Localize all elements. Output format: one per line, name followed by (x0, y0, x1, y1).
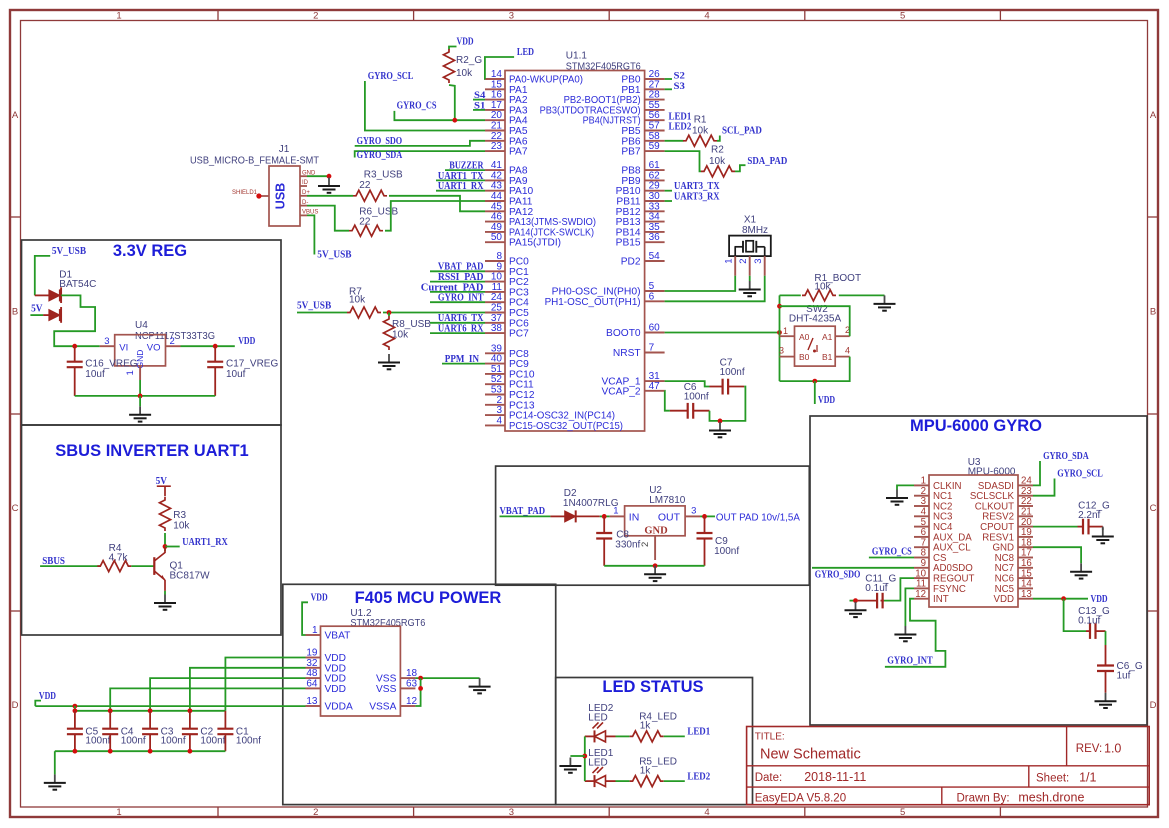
junction UART1_RX (163, 544, 168, 549)
svg-text:LED2: LED2 (687, 771, 710, 783)
wire R5_LED to LED2 label (664, 780, 685, 782)
ground (C11_G) (845, 602, 867, 617)
U3 pin 15 NC6 (995, 568, 1033, 584)
svg-text:SCL_PAD: SCL_PAD (722, 125, 762, 137)
wire VBUS to 5V_USB (307, 215, 314, 254)
diode D1 bottom half (43, 307, 61, 323)
ground (R1_BOOT) (874, 295, 896, 310)
svg-text:64: 64 (306, 678, 318, 689)
wire D+ to R3_USB (307, 195, 353, 197)
junction VSS63 (418, 686, 423, 691)
U1.1 pin 31 VCAP_1 (602, 371, 665, 388)
svg-text:UART1_RX: UART1_RX (182, 536, 228, 548)
svg-text:5V_USB: 5V_USB (317, 249, 352, 261)
U3 pin 7 AUX_CL (914, 537, 971, 553)
junction VCAP ground (718, 419, 723, 424)
svg-text:R2_G: R2_G (456, 55, 482, 66)
svg-text:10k: 10k (173, 521, 190, 532)
svg-text:5V_USB: 5V_USB (52, 245, 87, 257)
wire J1 GND to ground (307, 175, 329, 177)
svg-text:10k: 10k (456, 68, 473, 79)
U1.2 pin 64 VDD (306, 678, 347, 695)
svg-text:EasyEDA V5.8.20: EasyEDA V5.8.20 (755, 793, 846, 805)
net label 5V (30, 303, 43, 316)
SW2 pin 2 A1 (835, 325, 850, 336)
U1.1 pin 26 PB0 (621, 69, 664, 86)
U1.1 pin 17 PA3 (485, 100, 528, 117)
svg-text:50: 50 (491, 232, 503, 243)
junction U3 VDD (1061, 596, 1066, 601)
wire VDD pin48 to rail (150, 678, 305, 711)
capacitor C5 100nf (67, 711, 111, 751)
U1.1 pin 9 PC1 (485, 261, 529, 278)
svg-text:8MHz: 8MHz (742, 225, 768, 236)
diode D1 BAT54C dual schottky (0, 0, 1, 1)
U3 pin 8 CS (914, 548, 947, 564)
capacitor C2 100nf (182, 711, 226, 751)
svg-text:1: 1 (116, 807, 121, 818)
wire R3 to Q1 collector (164, 533, 166, 551)
svg-text:VDDA: VDDA (325, 702, 354, 713)
U1.1 pin 62 PB9 (621, 170, 664, 187)
svg-text:5: 5 (900, 11, 905, 22)
svg-text:R3_USB: R3_USB (364, 170, 403, 181)
svg-text:60: 60 (649, 323, 661, 334)
X1 pin 1 (724, 256, 736, 276)
net label S4 on PA2 (473, 90, 486, 100)
net label GYRO_SDO (U3) (812, 568, 914, 581)
net label VBAT_PAD (U2 in) (500, 505, 551, 517)
svg-text:38: 38 (491, 323, 503, 334)
wire PB7 to R2 (665, 151, 701, 171)
svg-text:GYRO_SCL: GYRO_SCL (1057, 469, 1103, 480)
svg-text:10k: 10k (392, 330, 409, 341)
junction C11_G gnd (850, 598, 858, 603)
wire LED lower to R5_LED (616, 780, 630, 782)
net label GYRO_SDA + wire to PA7 (355, 149, 485, 161)
svg-text:1.0: 1.0 (1104, 742, 1121, 756)
capacitor C4 100nf (102, 711, 146, 751)
U1.1 pin 49 PA14(JTCK-SWCLK) (485, 222, 594, 239)
wire LED common to ground (570, 755, 584, 757)
svg-text:4: 4 (496, 415, 502, 426)
capacitor C3 100nf (142, 711, 186, 751)
svg-text:0.1uf: 0.1uf (865, 583, 887, 594)
wire C7 to ground rail (720, 387, 745, 421)
resistor R4_LED 1k (630, 712, 677, 742)
svg-text:GYRO_INT: GYRO_INT (887, 656, 933, 667)
svg-text:LM7810: LM7810 (649, 495, 686, 506)
svg-text:USB_MICRO-B_FEMALE-SMT: USB_MICRO-B_FEMALE-SMT (190, 156, 319, 167)
resistor R6_USB (349, 206, 399, 236)
svg-text:GYRO_CS: GYRO_CS (397, 100, 437, 112)
ground (U2) (644, 566, 666, 581)
svg-text:GND: GND (644, 526, 668, 537)
svg-text:A0: A0 (799, 332, 810, 342)
U1.1 pin 41 PA8 (485, 160, 528, 177)
wire 5V_USB to R7 (297, 312, 347, 314)
svg-text:3: 3 (104, 336, 109, 347)
capacitor C13_G 0.1uf (1078, 606, 1110, 639)
wire X1 pin1 to PH0 (665, 276, 736, 291)
wire R2_G to PA4 net (449, 85, 455, 120)
wire R7 to PC5 (383, 312, 485, 314)
U1.1 pin 52 PC11 (485, 374, 534, 391)
ground (VSS) (469, 678, 491, 693)
U1.2 pin 1 VBAT (306, 625, 351, 642)
wire X1 pin3 to PH1 (665, 276, 765, 302)
U3 pin 6 AUX_DA (914, 527, 972, 543)
wire VSS63/VSSA join (415, 678, 420, 706)
ground (C12_G) (1092, 527, 1114, 544)
title block (747, 727, 1150, 805)
wire U2 ground rail (604, 565, 704, 567)
power flag VDD (R2_G top) (449, 36, 474, 50)
svg-text:TITLE:: TITLE: (755, 732, 785, 743)
net label GYRO_SCL (U3) (1033, 469, 1103, 496)
transistor Q1 BC817W (154, 547, 210, 591)
net label S2 on PB0 (665, 72, 686, 82)
wire SW2 left rail (779, 295, 781, 381)
net label UART3_TX on PB10 (665, 181, 720, 192)
U1.1 pin 25 PC5 (485, 303, 529, 320)
resistor R5_LED 1k (630, 757, 677, 787)
svg-text:GYRO_SCL: GYRO_SCL (368, 70, 414, 82)
net label GYRO_SDO + wire to PA6 (355, 135, 485, 147)
svg-text:VDD: VDD (818, 394, 835, 406)
J1 pin D+ (300, 190, 310, 196)
wire 3.3V REG ground rail (75, 395, 216, 397)
net label UART1_RX on PA10 (436, 180, 485, 192)
U1.1 pin 54 PD2 (621, 251, 665, 268)
wire INT to GYRO_INT (885, 599, 946, 667)
ground (C6_G) (1095, 693, 1117, 708)
U2 pin 1 IN (610, 506, 625, 517)
junction BOOT0 (777, 330, 782, 335)
U1.1 pin 7 NRST (613, 343, 665, 360)
U3 pin 1 CLKIN (914, 476, 962, 492)
junction C16 input (72, 344, 77, 349)
U1.1 pin 23 PA7 (485, 141, 528, 158)
wire SW2 bottom loop (780, 357, 850, 382)
svg-text:5V: 5V (31, 303, 42, 315)
svg-text:VCAP_2: VCAP_2 (602, 386, 641, 397)
wire SW2 top loop (780, 306, 850, 336)
U3 pin 19 RESV1 (982, 527, 1033, 543)
U3 pin 22 CLKOUT (975, 496, 1033, 512)
net label BUZZER on PA8 (445, 160, 485, 172)
svg-text:3: 3 (691, 506, 696, 517)
svg-text:1: 1 (312, 625, 318, 636)
U1.1 pin 10 PC2 (485, 272, 529, 289)
ground (3.3V REG) (129, 396, 151, 422)
wire CPOUT to C12_G (1033, 526, 1078, 528)
svg-text:10k: 10k (349, 295, 366, 306)
svg-text:22: 22 (359, 180, 371, 191)
svg-text:VI: VI (119, 343, 128, 354)
svg-text:C: C (1150, 503, 1157, 514)
SW2 pin 3 B0 (779, 346, 795, 357)
power flag VDD (VBAT) (302, 592, 328, 635)
wire C13_G to C6_G (1105, 631, 1107, 645)
svg-text:IN: IN (629, 511, 640, 523)
U1.1 pin 40 PC9 (485, 354, 529, 371)
svg-text:54: 54 (649, 251, 661, 262)
U1.1 pin 42 PA9 (485, 170, 528, 187)
svg-text:100nf: 100nf (720, 367, 745, 378)
section box SBUS INVERTER UART1 (22, 425, 282, 635)
wire VCAP_1 to C7 (665, 381, 710, 386)
svg-text:100nf: 100nf (236, 736, 261, 747)
svg-text:VSSA: VSSA (369, 702, 396, 713)
U3 pin 18 GND (992, 537, 1033, 553)
svg-text:STM32F405RGT6: STM32F405RGT6 (566, 62, 641, 73)
svg-text:3: 3 (509, 11, 514, 22)
svg-text:Drawn By:: Drawn By: (957, 793, 1010, 805)
op U1.2 STM32F405RGT6 body (321, 608, 426, 716)
junction R7/R8 (387, 310, 392, 315)
junction VSS18 (418, 676, 423, 681)
resistor R1 (683, 115, 717, 147)
wire rail to ground (54, 751, 56, 774)
net label GYRO_SDA (U3) (1033, 451, 1089, 485)
svg-text:100nf: 100nf (714, 546, 739, 557)
svg-text:PC15-OSC32_OUT(PC15): PC15-OSC32_OUT(PC15) (509, 421, 623, 432)
capacitor C6 100nf (670, 382, 710, 419)
svg-text:SHIELD1: SHIELD1 (232, 190, 258, 196)
svg-text:4: 4 (704, 11, 709, 22)
U1.2 pin 48 VDD (306, 668, 347, 685)
ground (CLKIN) (886, 490, 908, 505)
U1.1 pin 3 PC14-OSC32_IN(PC14) (485, 405, 615, 422)
U1.1 pin 20 PA4 (485, 110, 528, 127)
svg-text:R8_USB: R8_USB (392, 319, 431, 330)
led diode LED1 (lower) (585, 767, 616, 787)
svg-text:4.7k: 4.7k (109, 553, 129, 564)
svg-text:1uf: 1uf (1117, 671, 1131, 682)
U1.1 pin 24 PC4 (485, 292, 529, 309)
capacitor C11_G 0.1uf (858, 574, 897, 609)
U1.1 pin 4 PC15-OSC32_OUT(PC15) (485, 415, 623, 432)
wire VDD pin13 (1033, 598, 1088, 600)
U1.1 pin 50 PA15(JTDI) (485, 232, 561, 249)
junction C17 output (213, 344, 218, 349)
U4 pin 3 VI (100, 336, 115, 347)
ground (LED STATUS) (559, 758, 581, 773)
U3 pin 12 INT (914, 589, 949, 605)
net label RSSI_PAD (430, 272, 485, 283)
wire LED common cathode (584, 736, 586, 781)
ground (cap rail) (44, 774, 66, 789)
wire U4 VO to VDD (181, 345, 235, 347)
svg-text:PH1-OSC_OUT(PH1): PH1-OSC_OUT(PH1) (545, 297, 641, 308)
junction cap gnd rail (73, 749, 78, 754)
svg-text:3: 3 (509, 807, 514, 818)
wire VDD pin64 to rail (110, 688, 305, 710)
resistor R4 4.7k (97, 543, 131, 572)
svg-text:100nf: 100nf (684, 392, 709, 403)
J1 pin D- (300, 200, 308, 206)
SW2 pin 4 B1 (835, 346, 850, 357)
wire BOOT0 to SW2 (665, 332, 780, 334)
U3 pin 21 RESV2 (982, 507, 1033, 523)
wire U4 GND to rail (139, 380, 141, 396)
svg-text:1: 1 (783, 326, 788, 336)
svg-text:1/1: 1/1 (1079, 771, 1096, 785)
U1.1 pin 37 PC6 (485, 313, 529, 330)
capacitor C17_VREG 10uf (207, 346, 278, 396)
ground (Q1) (154, 595, 176, 610)
svg-text:U4: U4 (135, 320, 148, 331)
svg-text:5V_USB: 5V_USB (297, 300, 332, 312)
U1.1 pin 11 PC3 (485, 282, 529, 299)
svg-text:12: 12 (915, 589, 926, 600)
svg-text:VDD: VDD (325, 684, 347, 695)
junction SW2 VDD (812, 379, 817, 384)
net label GYRO_CS (U3) (869, 547, 914, 558)
U1.1 pin 51 PC10 (485, 364, 535, 381)
U1.2 pin 12 VSSA (369, 696, 417, 713)
svg-text:2.2nf: 2.2nf (1078, 510, 1100, 521)
svg-text:7: 7 (649, 343, 655, 354)
svg-text:LED: LED (517, 46, 534, 58)
U1.1 pin 58 PB6 (621, 131, 664, 148)
J1 pin SHIELD1 (232, 190, 269, 199)
junction LED common (582, 754, 587, 759)
U3 pin 2 NC1 (914, 486, 952, 502)
svg-text:SBUS INVERTER UART1: SBUS INVERTER UART1 (55, 442, 248, 460)
U3 pin 14 NC5 (995, 579, 1033, 595)
svg-text:LED: LED (588, 713, 607, 724)
svg-text:VDD: VDD (457, 36, 474, 48)
ground (FSYNC) (894, 626, 916, 641)
U1.1 pin 57 PB5 (621, 121, 664, 138)
capacitor C12_G 2.2nf (1078, 501, 1111, 535)
wire R3_USB to PA12 (389, 196, 485, 212)
section box MPU-6000 GYRO (810, 416, 1147, 725)
U1.1 pin 30 PB11 (616, 191, 664, 208)
resistor R2 (701, 145, 735, 177)
svg-text:New Schematic: New Schematic (760, 747, 861, 763)
net label LED (485, 46, 534, 79)
svg-text:B0: B0 (799, 352, 810, 362)
wire cap ground rail (55, 750, 226, 752)
diode D2 1N4007RLG (550, 488, 618, 522)
U1.1 pin 39 PC8 (485, 343, 529, 360)
svg-text:2: 2 (313, 11, 318, 22)
junction C8 input (602, 514, 607, 519)
U1.2 pin 32 VDD (306, 658, 347, 675)
ground (USB) (318, 178, 340, 193)
svg-text:330nf: 330nf (615, 540, 640, 551)
svg-text:23: 23 (491, 141, 503, 152)
svg-text:U1.1: U1.1 (566, 51, 588, 62)
svg-text:10uf: 10uf (85, 369, 105, 380)
svg-text:VBAT_PAD: VBAT_PAD (500, 505, 546, 517)
capacitor C7 100nf (710, 358, 745, 395)
svg-text:2: 2 (313, 807, 318, 818)
U3 pin 11 FSYNC (914, 579, 966, 595)
U1.1 pin 14 PA0-WKUP(PA0) (485, 69, 583, 86)
U3 pin 5 NC4 (914, 517, 953, 533)
U3 pin 23 SCLSCLK (970, 486, 1033, 502)
U1.2 pin 19 VDD (306, 648, 347, 665)
svg-text:R1: R1 (694, 115, 707, 126)
svg-text:1N4007RLG: 1N4007RLG (563, 498, 619, 509)
power flag VDD (SW2) (815, 381, 835, 406)
U1.1 pin 34 PB13 (616, 212, 665, 229)
svg-text:D: D (12, 700, 19, 711)
U1.1 pin 16 PA2 (485, 90, 528, 107)
svg-text:3.3V REG: 3.3V REG (113, 242, 187, 260)
U1.1 pin 33 PB12 (616, 201, 665, 218)
wire VDD pin19 to C1 column (225, 658, 305, 711)
junction C9 output (702, 514, 707, 519)
svg-text:Sheet:: Sheet: (1036, 773, 1069, 785)
U1.1 pin 56 PB4(NJTRST) (583, 110, 665, 127)
junction J1 GND (327, 174, 332, 179)
wire VDD pin32 to rail (190, 668, 306, 711)
U3 pin 16 NC7 (995, 558, 1033, 574)
resistor R1_BOOT (802, 273, 861, 301)
junction R1_BOOT rail (777, 304, 782, 309)
svg-text:13: 13 (306, 696, 318, 707)
U3 pin 10 REGOUT (914, 568, 975, 584)
U1.1 pin 29 PB10 (616, 181, 665, 198)
U2 pin 2 GND (640, 536, 655, 560)
net label S1 on PA3 (473, 101, 486, 111)
U1.1 pin 28 PB2-BOOT1(PB2) (564, 90, 665, 107)
J1 pin GND (300, 170, 316, 176)
svg-text:BC817W: BC817W (170, 571, 211, 582)
svg-text:GYRO_SDA: GYRO_SDA (357, 149, 403, 161)
junction U4 GND (138, 394, 143, 399)
net label GYRO_SCL + wire to PA5 (365, 70, 485, 131)
svg-text:B1: B1 (822, 352, 833, 362)
svg-text:PD2: PD2 (621, 257, 641, 268)
svg-text:1k: 1k (640, 766, 652, 777)
resistor R2_G (444, 49, 483, 83)
svg-text:BOOT0: BOOT0 (606, 328, 641, 339)
switch SW2 DHT-4235A body (789, 304, 842, 366)
diode D1 top half (35, 287, 61, 303)
svg-text:S2: S2 (674, 72, 686, 82)
svg-text:63: 63 (406, 678, 418, 689)
net label UART6_TX (430, 313, 485, 324)
svg-text:Date:: Date: (755, 772, 783, 784)
svg-text:100nf: 100nf (161, 736, 186, 747)
capacitor C9 100nf (697, 516, 740, 565)
U1.1 pin 55 PB3(JTDOTRACESWO) (540, 100, 665, 117)
wire VDD to C13_G (1064, 599, 1086, 631)
svg-text:2: 2 (640, 542, 651, 547)
svg-text:A: A (12, 110, 19, 121)
svg-text:A1: A1 (822, 332, 833, 342)
U1.1 pin 35 PB14 (616, 222, 665, 239)
wire LED upper to R4_LED (616, 735, 630, 737)
U1.1 pin 60 BOOT0 (606, 323, 665, 340)
svg-text:1: 1 (116, 11, 121, 22)
U1.1 pin 22 PA6 (485, 131, 528, 148)
junction U2 GND (653, 563, 658, 568)
resistor R3_USB (353, 170, 403, 202)
svg-text:6: 6 (649, 291, 655, 302)
U1.1 pin 8 PC0 (485, 251, 529, 268)
wire R4 to Q1 base (131, 565, 154, 567)
svg-text:PB15: PB15 (616, 238, 641, 249)
svg-text:1: 1 (613, 506, 618, 517)
svg-text:PA7: PA7 (509, 147, 528, 158)
